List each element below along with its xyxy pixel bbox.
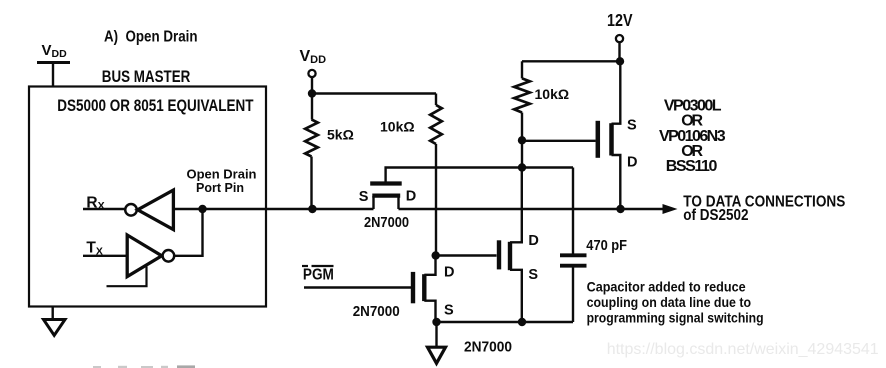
svg-text:S: S (444, 303, 454, 319)
net label PGM (active low, overline) (302, 266, 334, 284)
resistor R3 10k (gate pull-up) (514, 61, 530, 167)
svg-text:S: S (528, 267, 538, 283)
svg-text:VDD: VDD (42, 42, 68, 60)
svg-text:of DS2502: of DS2502 (683, 207, 748, 224)
node 5k pull-up junction on data line (308, 205, 316, 213)
svg-text:Capacitor added to reduce: Capacitor added to reduce (587, 278, 746, 294)
inverter U2 (Tx driver, bubble on right) (127, 235, 174, 277)
svg-text:5kΩ: 5kΩ (327, 126, 354, 142)
svg-text:S: S (359, 189, 369, 205)
label TO DATA CONNECTIONS of DS2502 (683, 194, 845, 225)
wire bottom source rail (437, 321, 574, 323)
node Q2 drain junction (432, 251, 440, 259)
wire data line (left segment, port pin to Q1 source) (173, 208, 373, 210)
wire Rx input (83, 208, 125, 210)
label Open Drain Port Pin (187, 168, 257, 195)
wire Tx enable (open-drain tie) (107, 267, 147, 287)
svg-text:470 pF: 470 pF (586, 237, 627, 254)
wire R3 node to Q4 gate (522, 140, 596, 142)
wire PGM to Q2 gate (304, 286, 411, 288)
node gate rail junction at R3 branch (518, 163, 526, 171)
svg-text:BUS MASTER: BUS MASTER (102, 68, 191, 86)
power symbol VDD (bus master supply) (37, 42, 70, 63)
transistor Q1 2N7000 (series MOSFET in data line) (370, 184, 402, 210)
svg-text:coupling on data line due to: coupling on data line due to (587, 294, 752, 310)
part label VP0300L OR VP0106N3 OR BSS110 (659, 97, 726, 175)
node VDD rail junction (308, 89, 316, 97)
svg-text:D: D (444, 265, 454, 281)
svg-text:https://blog.csdn.net/weixin_4: https://blog.csdn.net/weixin_42943541 (607, 341, 879, 358)
wire ground stem (programming side) (435, 322, 437, 347)
wire 12V rail to R3 (522, 60, 620, 62)
bus master box (29, 87, 266, 307)
svg-text:10kΩ: 10kΩ (535, 86, 570, 102)
svg-text:PGM: PGM (303, 267, 334, 284)
node Q2 source / ground junction (432, 318, 440, 326)
ground (bus master) (44, 320, 66, 336)
node 12V rail junction (616, 57, 624, 65)
power symbol VDD (pull-up supply terminal) (300, 48, 327, 77)
resistor R1 5k (pull-up) (305, 94, 318, 210)
svg-text:Port Pin: Port Pin (196, 181, 244, 195)
wire Tx input (83, 255, 127, 257)
svg-text:D: D (528, 233, 538, 249)
svg-text:DS5000 OR 8051 EQUIVALENT: DS5000 OR 8051 EQUIVALENT (57, 97, 253, 115)
arrow to DS2502 (663, 204, 678, 214)
wire Q2 drain node to Q3 gate (436, 254, 497, 256)
wire bus master ground stem (52, 307, 54, 320)
capacitor C1 470 pF (560, 168, 587, 323)
svg-text:A) Open Drain: A) Open Drain (104, 29, 198, 46)
resistor R2 10k (pull-up to gate node) (430, 94, 442, 256)
power terminal 12V (616, 35, 623, 42)
wire 12V stem (618, 43, 620, 62)
node port pin junction (198, 205, 206, 213)
svg-text:10kΩ: 10kΩ (380, 118, 415, 134)
wire VDD stem to bus master box (52, 63, 54, 88)
ground (programming side) (428, 347, 446, 363)
svg-text:programming signal switching: programming signal switching (587, 310, 764, 326)
svg-text:BSS110: BSS110 (666, 158, 718, 175)
wire Tx output to port node (175, 209, 203, 256)
transistor Q3 2N7000 (gate clamp) (499, 168, 522, 323)
inverter U1 (Rx receiver, bubble on left) (125, 190, 173, 230)
cropped caption fragment at bottom edge (93, 365, 195, 368)
node Q3 source junction (518, 318, 526, 326)
svg-text:Open Drain: Open Drain (187, 168, 257, 182)
wire data line (right segment, Q1 drain to arrow) (399, 208, 667, 210)
svg-text:S: S (627, 117, 637, 133)
svg-text:12V: 12V (607, 10, 633, 30)
transistor Q2 2N7000 (PGM driver) (413, 256, 436, 323)
wire Q1 gate to capacitor branch (386, 168, 573, 185)
wire VDD terminal to node (311, 78, 313, 95)
wire VDD rail to R2 branch (312, 92, 436, 94)
svg-text:D: D (406, 189, 416, 205)
svg-text:2N7000: 2N7000 (364, 215, 409, 231)
svg-text:VDD: VDD (300, 48, 327, 66)
node R3 bottom / Q4 gate junction (518, 136, 526, 144)
svg-text:2N7000: 2N7000 (464, 339, 512, 355)
svg-text:D: D (627, 154, 637, 170)
node Q4 drain on data line (616, 205, 624, 213)
svg-text:2N7000: 2N7000 (353, 304, 400, 320)
transistor Q4 VP0300L (p-channel programming switch) (598, 61, 621, 209)
annotation capacitor purpose (587, 278, 764, 325)
